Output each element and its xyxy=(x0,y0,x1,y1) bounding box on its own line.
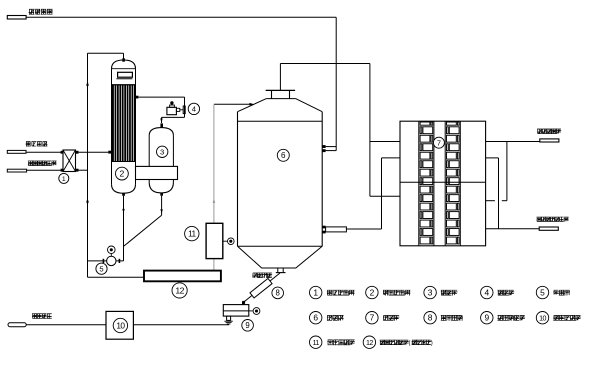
svg-text:11: 11 xyxy=(313,339,320,347)
svg-text:10: 10 xyxy=(116,320,125,330)
svg-text:4: 4 xyxy=(192,105,197,114)
svg-text:8: 8 xyxy=(428,313,433,323)
svg-text:1: 1 xyxy=(62,176,66,183)
svg-text:5: 5 xyxy=(540,288,545,298)
svg-text:9: 9 xyxy=(245,321,249,330)
svg-text:6: 6 xyxy=(281,151,286,160)
svg-text:2: 2 xyxy=(370,288,375,298)
svg-text:10: 10 xyxy=(539,314,546,322)
svg-text:12: 12 xyxy=(175,286,184,296)
svg-text:2: 2 xyxy=(120,169,125,179)
svg-text:12: 12 xyxy=(366,339,373,347)
svg-text:7: 7 xyxy=(437,138,441,147)
svg-text:6: 6 xyxy=(313,313,318,323)
svg-text:5: 5 xyxy=(99,264,103,273)
svg-text:11: 11 xyxy=(188,229,196,239)
svg-text:7: 7 xyxy=(370,313,375,323)
svg-text:3: 3 xyxy=(160,148,164,157)
svg-text:3: 3 xyxy=(428,288,433,298)
svg-text:1: 1 xyxy=(313,288,318,298)
svg-text:8: 8 xyxy=(276,289,280,298)
svg-text:(: ( xyxy=(409,341,411,347)
svg-text:9: 9 xyxy=(484,313,489,323)
svg-text:): ) xyxy=(431,341,433,347)
svg-text:4: 4 xyxy=(484,288,489,298)
